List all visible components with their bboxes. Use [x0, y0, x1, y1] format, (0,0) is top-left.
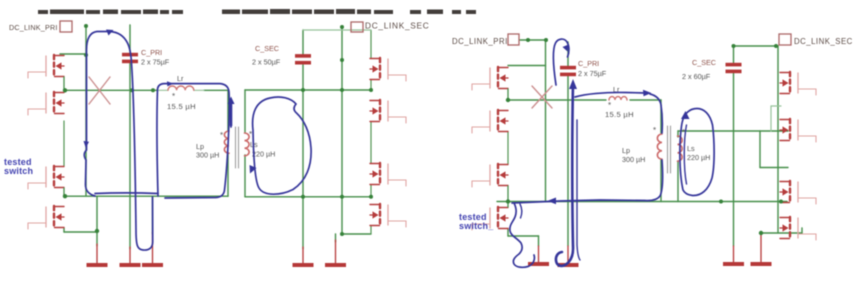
- svg-text:220 µH: 220 µH: [687, 153, 710, 162]
- svg-text:DC_LINK_PRI: DC_LINK_PRI: [452, 37, 508, 46]
- svg-text:*: *: [608, 101, 611, 110]
- svg-text:C_SEC: C_SEC: [692, 58, 716, 67]
- svg-text:switch: switch: [4, 166, 33, 176]
- svg-text:2 x 60µF: 2 x 60µF: [682, 72, 711, 81]
- svg-text:300 µH: 300 µH: [196, 151, 219, 160]
- svg-text:*: *: [653, 126, 656, 135]
- svg-text:DC_LINK_SEC: DC_LINK_SEC: [365, 21, 429, 31]
- svg-text:15.5 µH: 15.5 µH: [167, 102, 196, 111]
- svg-text:Lr: Lr: [177, 74, 184, 83]
- svg-text:300 µH: 300 µH: [622, 155, 645, 164]
- svg-text:15.5 µH: 15.5 µH: [605, 110, 634, 119]
- svg-text:*: *: [172, 92, 175, 101]
- svg-text:*: *: [249, 130, 252, 139]
- svg-text:DC_LINK_SEC: DC_LINK_SEC: [794, 37, 853, 46]
- svg-text:*: *: [220, 131, 223, 140]
- svg-text:C_PRI: C_PRI: [141, 48, 162, 57]
- svg-text:Lp: Lp: [622, 146, 630, 155]
- svg-text:2 x 75µF: 2 x 75µF: [141, 58, 170, 67]
- svg-text:DC_LINK_PRI: DC_LINK_PRI: [9, 23, 58, 32]
- svg-text:220 µH: 220 µH: [252, 150, 275, 159]
- svg-text:C_SEC: C_SEC: [255, 44, 279, 53]
- svg-text:C_PRI: C_PRI: [578, 59, 599, 68]
- svg-text:2 x 50µF: 2 x 50µF: [252, 58, 281, 67]
- svg-text:switch_: switch_: [459, 221, 494, 231]
- svg-text:Ls: Ls: [687, 144, 695, 153]
- svg-text:2 x 75µF: 2 x 75µF: [578, 69, 607, 78]
